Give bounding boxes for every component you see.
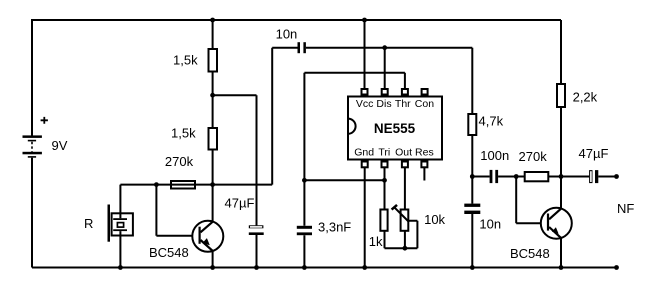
svg-text:NF: NF [617, 201, 634, 216]
svg-text:R: R [84, 216, 93, 231]
svg-text:270k: 270k [519, 149, 548, 164]
svg-text:1k: 1k [369, 234, 383, 249]
svg-text:1,5k: 1,5k [173, 52, 198, 67]
svg-text:NE555: NE555 [374, 121, 416, 136]
svg-text:Out: Out [395, 147, 412, 159]
svg-text:Tri: Tri [378, 147, 390, 159]
svg-text:Res: Res [415, 147, 434, 159]
svg-text:100n: 100n [480, 148, 509, 163]
svg-text:47µF: 47µF [225, 196, 255, 211]
svg-text:9V: 9V [52, 138, 68, 153]
svg-text:1,5k: 1,5k [171, 126, 196, 141]
svg-text:Con: Con [415, 98, 434, 110]
svg-text:10n: 10n [276, 26, 298, 41]
svg-text:10k: 10k [424, 212, 445, 227]
svg-text:270k: 270k [165, 154, 194, 169]
svg-text:Thr: Thr [395, 98, 411, 110]
svg-text:Gnd: Gnd [354, 147, 374, 159]
svg-text:Dis: Dis [376, 98, 391, 110]
svg-text:BC548: BC548 [149, 245, 189, 260]
svg-text:10n: 10n [479, 217, 501, 232]
svg-text:4,7k: 4,7k [479, 114, 504, 129]
svg-text:47µF: 47µF [579, 146, 609, 161]
svg-text:2,2k: 2,2k [573, 90, 598, 105]
svg-text:3,3nF: 3,3nF [318, 219, 351, 234]
svg-text:BC548: BC548 [510, 246, 550, 261]
svg-text:Vcc: Vcc [356, 98, 374, 110]
